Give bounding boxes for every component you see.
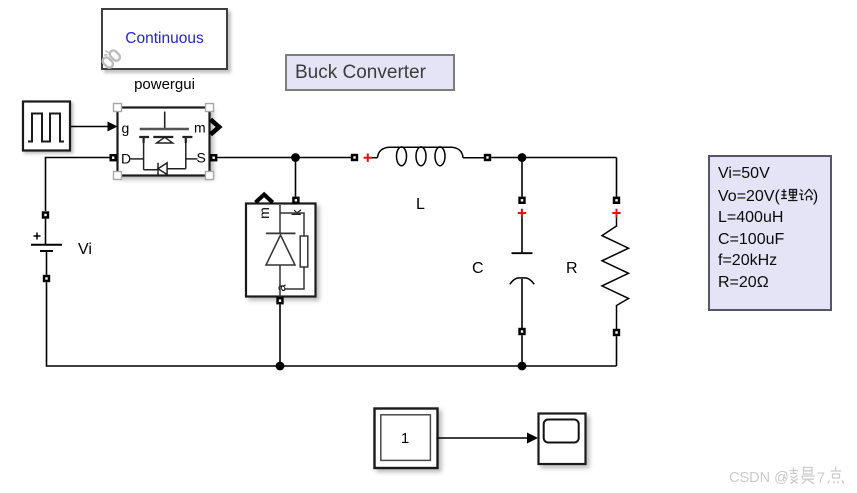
DC source Vi battery bbox=[31, 219, 62, 275]
MOSFET internal symbol bbox=[131, 112, 198, 175]
wire constant to scope bbox=[438, 433, 539, 444]
junction node at diode top bbox=[291, 153, 300, 162]
powergui label bbox=[101, 76, 228, 93]
junction node above capacitor bbox=[518, 153, 527, 162]
wire Vi to bottom rail bbox=[47, 282, 617, 366]
junction node bottom capacitor bbox=[518, 362, 527, 371]
MOSFET pin labels bbox=[121, 120, 206, 167]
junction node bottom diode bbox=[276, 362, 285, 371]
wire capacitor to bottom rail bbox=[521, 335, 523, 366]
svg-text:CSDN @: CSDN @ bbox=[729, 470, 789, 486]
watermark CSDN bbox=[729, 470, 789, 486]
diode block D1 bbox=[246, 204, 316, 297]
powergui block bbox=[101, 8, 228, 70]
diode m port chevron bbox=[256, 195, 273, 203]
svg-text:g: g bbox=[122, 120, 130, 136]
svg-text:D: D bbox=[121, 151, 131, 167]
svg-text:C: C bbox=[472, 260, 484, 277]
pulse generator block bbox=[23, 102, 70, 151]
diode k top port bbox=[292, 197, 299, 204]
svg-text:S: S bbox=[197, 150, 206, 166]
svg-text:7: 7 bbox=[817, 471, 825, 487]
wire diode to bottom rail bbox=[279, 304, 281, 366]
resistor R bottom port bbox=[613, 329, 620, 336]
wire junction to capacitor bbox=[521, 158, 523, 197]
svg-text:Vi: Vi bbox=[78, 241, 92, 258]
wire corner down to resistor bbox=[616, 158, 618, 197]
svg-text:L: L bbox=[416, 196, 425, 213]
resistor red plus bbox=[612, 209, 620, 217]
MOSFET D port bbox=[110, 154, 117, 161]
DC source Vi bottom port bbox=[43, 275, 50, 282]
inductor red plus bbox=[364, 154, 372, 162]
watermark CJK glyph chen bbox=[802, 468, 816, 484]
annotation Buck Converter bbox=[285, 54, 455, 91]
wire S to inductor (top rail) bbox=[217, 157, 351, 159]
diode a bottom port bbox=[276, 297, 283, 304]
annotation info box bbox=[708, 155, 832, 311]
wire resistor to bottom rail bbox=[616, 336, 618, 366]
wire inductor to R corner (top rail right) bbox=[491, 157, 616, 159]
MOSFET block U1 bbox=[118, 108, 210, 176]
MOSFET selection handles bbox=[114, 104, 214, 180]
MOSFET m output chevron bbox=[211, 120, 220, 135]
svg-text:1: 1 bbox=[401, 430, 409, 447]
resistor R top port bbox=[613, 197, 620, 204]
svg-text:m: m bbox=[194, 120, 206, 136]
powergui Continuous text bbox=[101, 30, 228, 48]
svg-text:R: R bbox=[566, 260, 578, 277]
MOSFET S port bbox=[210, 154, 217, 161]
DC source Vi top port bbox=[42, 211, 49, 218]
capacitor red plus bbox=[518, 209, 526, 217]
inductor L coil bbox=[372, 147, 484, 166]
wire junction down to diode bbox=[295, 158, 297, 197]
wire pulse to gate bbox=[70, 122, 118, 132]
wire D to Vi bbox=[46, 158, 110, 212]
svg-text:m: m bbox=[256, 207, 272, 219]
constant block 1 bbox=[375, 409, 438, 469]
inductor L right port bbox=[484, 154, 491, 161]
scope block bbox=[539, 414, 586, 465]
svg-text:a: a bbox=[274, 284, 289, 292]
diode internal symbol with snubber bbox=[266, 205, 308, 297]
capacitor C bottom port bbox=[518, 328, 525, 335]
watermark CJK glyph ling bbox=[784, 468, 799, 484]
resistor R zigzag bbox=[602, 217, 629, 329]
capacitor C top port bbox=[518, 197, 525, 204]
watermark CJK glyph dian bbox=[828, 467, 844, 484]
capacitor C element bbox=[510, 217, 534, 328]
inductor L left port bbox=[351, 154, 358, 161]
